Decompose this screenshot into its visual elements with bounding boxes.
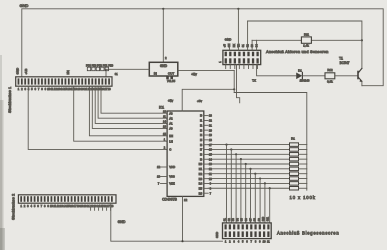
node junction GND rail / SV1 GND pin xyxy=(237,8,239,10)
wire drop to Biegesensoren connector pin 7 xyxy=(254,174,256,223)
svg-text:A0: A0 xyxy=(169,127,173,131)
wire drop to Biegesensoren connector pin 8 xyxy=(259,179,261,223)
wire U1 GND pin up to GND rail xyxy=(162,9,164,63)
svg-text:Anschluß Aktoren und Sensoren: Anschluß Aktoren und Sensoren xyxy=(266,49,329,54)
svg-text:A1: A1 xyxy=(169,122,173,126)
svg-text:EN: EN xyxy=(66,70,70,74)
svg-text:CD4067B: CD4067B xyxy=(162,198,177,202)
svg-text:R11: R11 xyxy=(304,32,309,36)
wire Steckbuchse 2 GND pin to Biegesensoren connector GND xyxy=(111,203,223,241)
wire IC1 VDD pin to +5V distribution rail xyxy=(182,89,234,111)
svg-text:+5v: +5v xyxy=(168,99,174,103)
wire drop to Biegesensoren connector pin 9 xyxy=(264,183,266,223)
node junction sensor wire 2 xyxy=(230,148,232,150)
Biegesensoren connector pins 2x11 xyxy=(225,224,227,229)
wire drop to Biegesensoren connector pin 5 xyxy=(245,164,247,223)
wire drop to Biegesensoren connector pin 3 xyxy=(235,154,237,223)
svg-text:3,3k: 3,3k xyxy=(327,79,333,83)
svg-text:I16: I16 xyxy=(199,191,203,195)
svg-text:+U: +U xyxy=(224,44,227,47)
svg-text:I11: I11 xyxy=(199,167,203,171)
svg-text:I13: I13 xyxy=(199,177,203,181)
svg-text:A2: A2 xyxy=(169,116,173,120)
wire drop to Biegesensoren connector pin 6 xyxy=(250,169,252,223)
svg-text:+5v: +5v xyxy=(197,99,202,103)
wire Steckbuchse 1 pin 22 to IC1 pin EN xyxy=(89,87,167,136)
resistor R10 100k xyxy=(290,187,299,191)
svg-text:1N4148: 1N4148 xyxy=(300,79,310,83)
wire Steckbuchse 1 pin 18 to IC1 pin LN xyxy=(74,87,167,142)
resistor R4 100k xyxy=(290,157,299,161)
wire drop to Biegesensoren connector pin 2 xyxy=(230,149,232,222)
wire D1 cathode to R12 xyxy=(303,75,325,77)
svg-text:S10: S10 xyxy=(262,216,265,221)
svg-text:I14: I14 xyxy=(199,182,203,186)
wire TX from SV1 pin 8 to D1 anode xyxy=(257,65,296,76)
resistor R7 100k xyxy=(290,172,299,176)
resistor R12 body xyxy=(325,73,335,79)
svg-text:I10: I10 xyxy=(199,162,203,166)
wire SV1 pin 7 up to R11 net xyxy=(251,40,253,50)
wire SV1 pin 2 stub up xyxy=(228,45,230,51)
svg-text:I15: I15 xyxy=(199,186,203,190)
svg-text:13: 13 xyxy=(157,175,161,179)
svg-text:EN: EN xyxy=(169,134,173,138)
U1 bottom pad 2 xyxy=(170,76,173,79)
node junction GND rail / IC1 VSS drop xyxy=(181,240,183,242)
wire GND rail: left drop to Steckbuchse 1, top run, right drop to T1 emitter xyxy=(22,9,383,86)
resistor R11 body xyxy=(301,37,311,43)
wire SV1 pin 4 stub down (decoupling) xyxy=(237,65,240,103)
resistor R2 100k xyxy=(290,148,299,152)
wire drop to Biegesensoren connector pin 4 xyxy=(240,159,242,223)
node junction sensor wire 7 xyxy=(254,173,256,175)
svg-text:Anschluß Biegesensoren: Anschluß Biegesensoren xyxy=(277,230,339,235)
wire IC1 channel I10 to resistor R5 and sensor 5 xyxy=(208,163,289,165)
Steckbuchse 1 pins (28 contacts) xyxy=(18,78,20,84)
connector Steckbuchse 1 body xyxy=(16,77,112,86)
wire SV1 pin 8 up to R11 net xyxy=(256,40,258,50)
svg-text:TX: TX xyxy=(252,78,256,82)
resistor R3 100k xyxy=(290,153,299,157)
wire R11 right to collector net xyxy=(311,39,362,41)
connector SV1 Anschluss Akku und Sender body xyxy=(223,50,261,64)
node junction +5V rail / SV1 supply drop xyxy=(233,88,235,90)
resistor R9 100k xyxy=(290,182,299,186)
node junction R11 / collector wire xyxy=(361,39,363,41)
svg-text:OUT: OUT xyxy=(168,71,175,75)
node junction sensor wire 5 xyxy=(245,163,247,165)
wire U1 OUT +5V rail to SV1 xyxy=(178,69,234,71)
wire Steckbuchse 1 pin 23 to IC1 pin A0 xyxy=(92,87,167,129)
node junction sensor wire 8 xyxy=(259,177,261,179)
wire Steckbuchse 1 pin 4 to IC1 pin C xyxy=(28,87,167,150)
wire Steckbuchse 1 pin 25 to IC1 pin A2 xyxy=(98,87,167,119)
resistor R8 100k xyxy=(290,177,299,181)
wire Steckbuchse 1 supply pin to U1 IN xyxy=(106,69,149,77)
wire IC1 channel I15 to resistor R10 and sensor 10 xyxy=(208,187,289,189)
svg-text:PE4 PE3 PE2 PE1 PE0: PE4 PE3 PE2 PE1 PE0 xyxy=(86,64,114,67)
wire SV1 pin 6 over to T1 collector xyxy=(248,21,362,68)
svg-text:IN: IN xyxy=(154,71,157,75)
svg-text:BC547: BC547 xyxy=(340,61,350,65)
wire Steckbuchse 1 pin 24 to IC1 pin A1 xyxy=(95,87,167,124)
svg-text:GND: GND xyxy=(16,67,20,75)
svg-text:IC1: IC1 xyxy=(159,106,164,110)
svg-text:GND: GND xyxy=(215,232,219,238)
wire SV1 pin 6 up to collector net xyxy=(247,21,249,50)
node junction sensor wire 9 xyxy=(264,182,266,184)
svg-text:GND: GND xyxy=(118,220,126,224)
scan shadow left edge xyxy=(0,55,2,250)
svg-text:C: C xyxy=(169,148,171,152)
connector Anschluss Biegesensoren body xyxy=(223,223,272,239)
wire drop to Biegesensoren connector pin 10 xyxy=(269,188,271,223)
svg-text:VDD: VDD xyxy=(169,165,175,169)
wire IC1 channel I6 to resistor R1 and sensor 1 xyxy=(208,144,289,146)
wire IC1 VSS pin down to GND rail xyxy=(182,196,184,241)
multiplexer IC1 CD4067 body xyxy=(167,111,204,196)
svg-text:12: 12 xyxy=(157,165,161,169)
SV1 pins 2x8 xyxy=(225,52,227,57)
voltage regulator U1 78L05 body xyxy=(149,62,178,76)
svg-text:GND: GND xyxy=(160,64,168,68)
wire IC1 channel I13 to resistor R8 and sensor 8 xyxy=(208,178,289,180)
node junction sensor wire 4 xyxy=(240,158,242,160)
svg-text:GND: GND xyxy=(20,3,29,8)
wire R12 to T1 base xyxy=(335,75,358,77)
svg-text:RX: RX xyxy=(233,43,236,47)
svg-text:28: 28 xyxy=(108,87,111,91)
resistor R5 100k xyxy=(290,162,299,166)
svg-text:I12: I12 xyxy=(199,172,203,176)
resistor R1 100k xyxy=(290,143,299,147)
wire T1 emitter to GND rail xyxy=(361,81,363,85)
node junction sensor wire 10 xyxy=(269,187,271,189)
svg-text:R1: R1 xyxy=(291,136,295,140)
wire SV1 GND pin up to GND rail xyxy=(237,9,239,51)
node junction sensor wire 6 xyxy=(249,168,251,170)
wire IC1 channel I14 to resistor R9 and sensor 9 xyxy=(208,182,289,184)
wire SV1 supply pin down to +5V distribution rail xyxy=(233,70,235,92)
svg-text:D1: D1 xyxy=(298,69,302,73)
svg-text:78L05: 78L05 xyxy=(167,79,176,83)
jumper pads PE row above Steckbuchse 1 xyxy=(87,67,90,71)
wire Steckbuchse 1 pin 26 to IC1 pin A3 xyxy=(101,87,167,114)
diode D1 1N4148 xyxy=(296,73,302,80)
svg-text:Steckbuchse 1: Steckbuchse 1 xyxy=(7,86,12,113)
svg-text:LN: LN xyxy=(169,139,173,143)
wire drop to Biegesensoren connector pin 1 xyxy=(226,145,228,223)
IC1 lower-left stub pins xyxy=(161,166,168,168)
connector Steckbuchse 2 body xyxy=(18,195,116,203)
svg-text:A3: A3 xyxy=(169,111,173,115)
Steckbuchse 2 lower stubs xyxy=(90,208,92,210)
svg-text:+UB: +UB xyxy=(24,69,28,75)
SV1 bottom pin stubs xyxy=(225,65,227,69)
wire IC1 channel I9 to resistor R4 and sensor 4 xyxy=(208,158,289,160)
IC1 right pin stubs and numbers xyxy=(204,115,208,117)
wire IC1 channel I12 to resistor R7 and sensor 7 xyxy=(208,173,289,175)
transistor T1 BC547 xyxy=(357,71,359,80)
svg-text:Steckbuchse 2: Steckbuchse 2 xyxy=(11,193,16,220)
svg-text:TX: TX xyxy=(237,44,240,47)
wire IC1 channel I11 to resistor R6 and sensor 6 xyxy=(208,168,289,170)
Steckbuchse 2 pins (28 contacts) xyxy=(20,196,22,202)
svg-text:1,4k: 1,4k xyxy=(303,44,309,48)
node junction sensor wire 3 xyxy=(235,153,237,155)
svg-text:GND: GND xyxy=(225,38,233,42)
resistor R6 100k xyxy=(290,167,299,171)
node junction GND rail / U1 GND pin xyxy=(162,8,164,10)
svg-text:VSS: VSS xyxy=(169,175,175,179)
node junction sensor wire 1 xyxy=(225,144,227,146)
svg-text:VEE: VEE xyxy=(169,182,175,186)
svg-text:10 x 100k: 10 x 100k xyxy=(290,195,316,200)
svg-text:S11: S11 xyxy=(266,216,269,221)
wire IC1 channel I8 to resistor R3 and sensor 3 xyxy=(208,153,289,155)
svg-text:R12: R12 xyxy=(327,68,333,72)
svg-text:12: 12 xyxy=(184,198,188,202)
wire IC1 channel I7 to resistor R2 and sensor 2 xyxy=(208,148,289,150)
wire resistor network common to +5V rail xyxy=(234,93,307,191)
U1 bottom pad 1 xyxy=(166,76,169,79)
wire R11 left xyxy=(252,39,301,41)
svg-text:+5v: +5v xyxy=(191,72,197,76)
